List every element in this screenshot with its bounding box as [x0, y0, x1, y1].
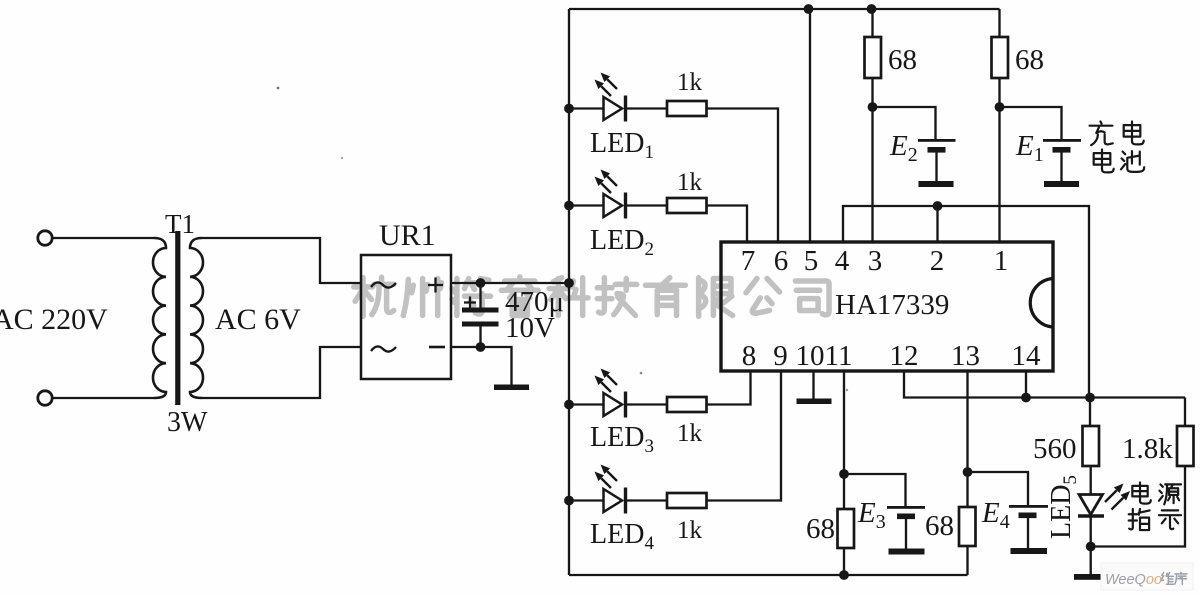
- svg-text:3: 3: [868, 245, 883, 277]
- svg-text:68: 68: [888, 44, 917, 76]
- svg-text:560: 560: [1033, 433, 1077, 465]
- wire: LED4 to resistor: [626, 499, 668, 501]
- wire: positive LED bus vertical: [568, 9, 570, 575]
- battery E2 positive plate: [918, 139, 956, 142]
- bridge rectifier UR1 box: [361, 255, 451, 379]
- battery E3 negative plate: [897, 514, 915, 520]
- svg-text:3W: 3W: [167, 407, 208, 438]
- wire: pin 11 column lower: [843, 548, 845, 575]
- svg-text:1k: 1k: [677, 69, 703, 96]
- resistor 1k (LED4): [667, 493, 707, 508]
- node: E2 junction: [868, 102, 878, 112]
- resistor 1k (LED1): [667, 101, 707, 116]
- svg-text:E3: E3: [857, 497, 886, 533]
- svg-text:4: 4: [835, 245, 850, 277]
- wire: AC mains top lead: [53, 237, 155, 239]
- resistor 1k (LED3): [667, 397, 707, 412]
- svg-text:AC 6V: AC 6V: [215, 303, 301, 336]
- battery E4 positive plate: [1009, 505, 1048, 508]
- svg-text:6: 6: [774, 245, 789, 277]
- svg-text:1k: 1k: [677, 420, 703, 447]
- wire: bottom bus: [569, 574, 968, 576]
- wire: pin 11 column upper: [843, 371, 845, 509]
- resistor 560: [1083, 426, 1100, 466]
- UR1 ~ bottom input mark: [371, 346, 396, 351]
- node: LED4 anode junction: [564, 496, 574, 506]
- ground: pin 10: [797, 399, 832, 405]
- svg-text:68: 68: [1015, 44, 1044, 76]
- wire: resistor to IC pin column x=778: [707, 109, 779, 243]
- wire: 560 to LED5: [1090, 466, 1092, 494]
- svg-text:LED4: LED4: [590, 519, 654, 554]
- wire: pin 5 column to top bus: [809, 9, 811, 242]
- svg-text:11: 11: [825, 340, 853, 372]
- svg-text:68: 68: [925, 510, 954, 542]
- UR1 + output mark: [428, 278, 443, 293]
- node: 68 R1 bus junction: [867, 4, 877, 14]
- svg-text:LED2: LED2: [590, 225, 654, 260]
- ground: main filter ground: [494, 385, 529, 391]
- wire: LED2 to resistor: [626, 204, 668, 206]
- label charge battery line2: [1094, 150, 1114, 173]
- battery E3 bottom bar: [889, 549, 925, 555]
- node: E4 junction: [963, 467, 973, 477]
- svg-text:9: 9: [773, 340, 788, 372]
- wire: bus to LED2: [569, 204, 604, 206]
- wire: UR1 + output to LED bus: [451, 282, 569, 284]
- wire: LED3 to resistor: [626, 403, 668, 405]
- battery E1 negative plate: [1053, 147, 1071, 153]
- svg-text:13: 13: [951, 340, 980, 372]
- terminal: AC input top: [38, 231, 52, 245]
- transformer T1 secondary winding: [190, 238, 203, 398]
- wire: bus to LED1: [569, 107, 604, 109]
- wire: top supply bus: [569, 8, 1000, 10]
- wire: resistor to IC pin column x=750.5: [707, 372, 751, 405]
- terminal: AC input bottom: [38, 391, 52, 405]
- wire: 68 R2 bottom lead to pin 1: [998, 78, 1000, 242]
- svg-text:14: 14: [1012, 340, 1042, 372]
- resistor 68 (E2 charge): [865, 37, 882, 78]
- IC U1 HA17339 body: [721, 242, 1053, 371]
- wire: 68 R1 bottom lead to pin 3: [871, 78, 873, 242]
- battery E4 negative plate: [1019, 513, 1037, 519]
- wire: pin 14 stub: [1025, 371, 1027, 398]
- svg-text:10V: 10V: [505, 312, 555, 344]
- resistor 68 (pin13): [959, 507, 976, 546]
- wire: pin 10 to ground: [812, 371, 814, 399]
- wire: jog to battery E3: [844, 474, 906, 507]
- battery E3 lead: [905, 519, 907, 549]
- UR1 - output mark: [429, 346, 445, 349]
- wire: bus to LED3: [569, 403, 604, 405]
- svg-text:HA17339: HA17339: [835, 289, 949, 321]
- svg-text:T1: T1: [165, 209, 195, 239]
- wire: UR1 - output to ground: [451, 347, 512, 385]
- wire: LED5 cathode to ground: [1090, 516, 1092, 575]
- wire: 560 top lead: [1089, 398, 1091, 427]
- label charge battery line1: [1090, 122, 1113, 146]
- LED LED4: [604, 489, 623, 512]
- battery E2 negative plate: [928, 147, 946, 153]
- IC U1 notch: [1030, 279, 1053, 328]
- svg-text:1: 1: [994, 245, 1009, 277]
- svg-text:5: 5: [804, 245, 819, 277]
- svg-text:7: 7: [741, 245, 756, 277]
- ground: LED5: [1074, 574, 1111, 580]
- svg-text:12: 12: [890, 340, 919, 372]
- battery E1 bottom bar: [1044, 181, 1079, 187]
- resistor 68 (pin11): [838, 509, 855, 548]
- svg-text:E4: E4: [981, 497, 1010, 533]
- svg-text:68: 68: [806, 513, 835, 545]
- svg-text:UR1: UR1: [379, 219, 436, 252]
- wire: LED1 to resistor: [626, 107, 668, 109]
- svg-text:2: 2: [930, 245, 945, 277]
- capacitor C1 lead bottom: [479, 326, 481, 347]
- resistor 1k (LED2): [667, 198, 707, 213]
- svg-text:E1: E1: [1015, 130, 1044, 166]
- node: bottom bus junction: [839, 570, 849, 580]
- wire: secondary top to UR1: [202, 238, 361, 283]
- LED LED5 (power indicator): [1079, 495, 1103, 515]
- wire: pin 12 column: [904, 371, 1185, 398]
- resistor 68 (E1 charge): [992, 37, 1009, 78]
- watermark weeqoo box: [1101, 563, 1193, 590]
- wire: jog to battery E4: [968, 472, 1029, 506]
- battery E2 bottom bar: [919, 181, 954, 187]
- node: LED5/1.8k junction: [1086, 542, 1096, 552]
- resistor 1.8k: [1177, 426, 1194, 466]
- node: E1 junction: [995, 102, 1005, 112]
- LED LED1: [604, 97, 623, 120]
- capacitor C1 top plate: [462, 308, 499, 313]
- battery E3 positive plate: [887, 506, 925, 509]
- node: cap + junction: [476, 278, 486, 288]
- node: pin5 top bus junction: [804, 4, 814, 14]
- node: LED3 anode junction: [564, 400, 574, 410]
- wire: resistor to IC pin column x=781: [707, 372, 782, 501]
- wire: 1.8k top lead: [1184, 398, 1186, 427]
- svg-text:LED5: LED5: [1046, 475, 1081, 539]
- node: LED1 anode junction: [564, 104, 574, 114]
- wire: pin 13 column lower: [966, 546, 968, 575]
- svg-text:1k: 1k: [677, 169, 703, 196]
- transformer T1 primary winding: [153, 238, 166, 398]
- watermark company name: [354, 277, 394, 316]
- svg-text:E2: E2: [889, 130, 918, 166]
- node: LED2 anode junction: [564, 201, 574, 211]
- battery E1 lead: [1060, 152, 1062, 181]
- battery E4 bottom bar: [1011, 548, 1048, 554]
- wire: net pin4/pin2 horizontal: [843, 206, 1089, 397]
- wire: 68 R2 top lead: [998, 9, 1000, 37]
- node: bus junction at UR1 output: [564, 278, 574, 288]
- capacitor C1 plus mark: [464, 297, 476, 309]
- svg-text:AC 220V: AC 220V: [0, 303, 108, 336]
- capacitor C1 bottom plate: [462, 322, 499, 327]
- wire: 1.8k bottom to LED5 node: [1091, 466, 1185, 547]
- node: pin2 junction: [933, 201, 943, 211]
- wire: jog to battery E2: [873, 107, 936, 140]
- svg-text:LED1: LED1: [590, 128, 654, 163]
- battery E2 lead: [935, 152, 937, 181]
- wire: secondary bottom to UR1: [202, 347, 361, 398]
- UR1 ~ top input mark: [371, 282, 396, 287]
- wire: 68 R1 top lead: [871, 9, 873, 37]
- node: 560 junction: [1085, 393, 1095, 403]
- svg-text:8: 8: [742, 340, 757, 372]
- wire: bus to LED4: [569, 499, 604, 501]
- capacitor C1 470u lead top: [479, 283, 481, 308]
- node: pin14 junction: [1021, 393, 1031, 403]
- battery E1 positive plate: [1043, 139, 1081, 142]
- svg-text:WeeQoo: WeeQoo: [1105, 572, 1162, 588]
- node: cap - junction: [476, 342, 486, 352]
- battery E4 lead: [1027, 518, 1029, 549]
- svg-text:1.8k: 1.8k: [1122, 433, 1173, 465]
- svg-text:10: 10: [796, 340, 825, 372]
- wire: pin 13 column upper: [966, 371, 968, 507]
- svg-text:1k: 1k: [677, 517, 703, 544]
- wire: pin 2 stub: [936, 206, 938, 242]
- LED LED3: [604, 393, 623, 416]
- LED LED2: [604, 194, 623, 217]
- wire: jog to battery E1: [1000, 107, 1062, 140]
- wire: AC mains bottom lead: [53, 397, 155, 399]
- wire: resistor to IC pin column x=747: [707, 206, 748, 243]
- svg-text:LED3: LED3: [590, 422, 654, 457]
- label power indicator line1: [1132, 482, 1150, 503]
- label power indicator line2: [1129, 509, 1150, 530]
- node: E3 junction: [839, 469, 849, 479]
- transformer T1 core: [175, 231, 180, 405]
